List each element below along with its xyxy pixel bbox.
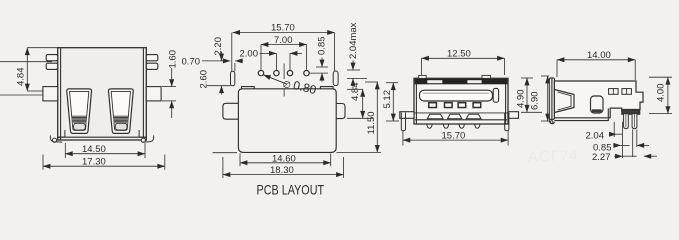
dim 2.60 (view2 left) <box>207 52 231 95</box>
dim 2.27 (view4 bottom) <box>614 155 657 157</box>
right slot <box>333 71 338 86</box>
dim 2.20 (view2 slot width) <box>235 61 243 71</box>
cap bump left <box>419 75 427 78</box>
leader for dia 0.80 <box>263 75 287 84</box>
left foot <box>58 130 65 137</box>
left side lead <box>43 87 58 101</box>
dim 15.70 (view3 bottom) <box>403 131 508 146</box>
leader line left top <box>0 61 52 63</box>
svg-text:6.90: 6.90 <box>530 92 541 111</box>
svg-text:4.84: 4.84 <box>350 83 361 102</box>
right cup bottom pocket <box>115 123 127 130</box>
left contact cup outer <box>67 89 92 133</box>
dim 0.85 (view4 bottom) <box>614 130 650 158</box>
dim 4.84 (view1 left) <box>27 48 57 91</box>
top bump right <box>320 87 333 89</box>
dim 4.84 (view2 right) <box>347 89 373 118</box>
left mount tab <box>400 112 414 119</box>
window 2 <box>448 114 462 119</box>
right contact cup outer <box>108 89 133 133</box>
svg-text:4.90: 4.90 <box>516 90 527 109</box>
svg-text:14.50: 14.50 <box>82 144 106 155</box>
center line <box>283 64 285 80</box>
svg-text:0.85: 0.85 <box>317 37 328 56</box>
dim 6.90 (left of view4) <box>541 76 549 121</box>
side cube <box>493 88 498 102</box>
bottom pin bump 3 <box>459 124 464 128</box>
bottom pin bump 1 <box>427 124 432 128</box>
top cap dark band <box>415 79 508 84</box>
shell inner wall left <box>60 48 62 140</box>
top right window 2 <box>622 89 632 95</box>
bottom pin bump 4 <box>475 124 480 128</box>
hole 4 <box>304 70 309 75</box>
svg-text:7.00: 7.00 <box>274 35 293 46</box>
leader line left bottom <box>0 94 44 96</box>
svg-text:4.84: 4.84 <box>16 68 27 87</box>
dim 1.60 (view1 right) <box>162 68 176 118</box>
svg-text:4.00: 4.00 <box>655 84 666 103</box>
left pin <box>401 113 405 131</box>
dim 5.12 (view2 right) <box>386 83 399 121</box>
hole 3 <box>287 70 292 75</box>
hole 1 <box>258 70 263 75</box>
left tab lower <box>46 63 58 69</box>
dim 15.70 (view2 top) <box>232 33 335 72</box>
right tab <box>336 104 345 119</box>
dim 17.30 (view1) <box>43 155 165 170</box>
dim 14.00 (view4 top) <box>557 60 635 80</box>
shell inner wall right <box>142 48 144 140</box>
body <box>554 81 643 118</box>
body inner walls <box>415 79 417 124</box>
window 1 <box>427 114 443 119</box>
dim 14.60 (view2 bottom) <box>240 154 331 167</box>
dim 18.30 (view2 bottom) <box>213 153 344 178</box>
contact hole 1 <box>429 103 437 108</box>
svg-text:PCB LAYOUT: PCB LAYOUT <box>257 182 325 197</box>
svg-text:2.04max: 2.04max <box>348 22 359 59</box>
left cup stripe band <box>72 116 87 124</box>
cap bump right <box>482 75 491 78</box>
hole 2 <box>274 70 279 75</box>
svg-text:1.60: 1.60 <box>168 50 179 69</box>
dim 2.00 (view2) <box>260 53 303 69</box>
svg-text:15.70: 15.70 <box>442 131 466 142</box>
contact hole 4 <box>473 103 481 108</box>
left tab <box>223 103 239 119</box>
left slot <box>231 71 235 85</box>
mid slot <box>591 96 604 113</box>
pin inner lines <box>625 114 627 127</box>
svg-text:14.60: 14.60 <box>272 154 296 165</box>
dim 14.50 (view1) <box>65 143 145 158</box>
svg-text:2.60: 2.60 <box>199 70 210 89</box>
svg-text:2.27: 2.27 <box>592 152 611 163</box>
window 3 <box>466 114 481 119</box>
svg-text:17.30: 17.30 <box>82 157 106 168</box>
shell inner wall bottom <box>58 136 146 138</box>
mid line <box>414 112 508 114</box>
dim 12.50 (view3 top) <box>422 58 505 75</box>
right tab lower <box>146 63 158 69</box>
mounting flange <box>549 78 554 120</box>
cap white slot right <box>467 80 481 83</box>
dim 7.00 (view2) <box>261 45 307 70</box>
svg-text:0.70: 0.70 <box>182 56 201 67</box>
right mount tab <box>508 112 519 119</box>
svg-text:ACΓ74: ACΓ74 <box>528 147 579 166</box>
svg-text:14.00: 14.00 <box>587 50 611 61</box>
contact hole 3 <box>458 103 466 108</box>
dim 0.85 (view2) <box>309 58 328 82</box>
dim 4.00 (view4 right) <box>649 77 672 113</box>
svg-text:15.70: 15.70 <box>271 23 295 34</box>
right pin <box>505 113 509 131</box>
left cup bottom pocket <box>74 123 86 130</box>
top bump left <box>242 87 255 89</box>
svg-text:11.50: 11.50 <box>366 111 377 134</box>
right contact cup inner <box>111 92 130 131</box>
right tab upper <box>146 55 158 61</box>
seam slot <box>420 90 493 101</box>
right cup stripe band <box>114 116 129 124</box>
svg-text:2.20: 2.20 <box>213 37 224 56</box>
right foot <box>139 130 146 137</box>
svg-text:2.04: 2.04 <box>586 130 605 141</box>
top right window 1 <box>609 89 619 95</box>
dim 4.90 (between view3 and view4) <box>521 78 542 112</box>
dim 11.50 (view2 right) <box>337 82 382 152</box>
svg-text:5.12: 5.12 <box>382 90 393 109</box>
bottom pin bump 2 <box>443 124 448 128</box>
svg-text:12.50: 12.50 <box>447 49 471 60</box>
left contact cup inner <box>70 92 89 131</box>
latch detail <box>554 90 574 113</box>
cap white slot left <box>427 80 442 83</box>
svg-text:2.00: 2.00 <box>240 48 259 59</box>
shell body <box>58 48 147 140</box>
contact hole 2 <box>445 103 453 108</box>
solder pin 1 <box>624 114 629 128</box>
left tab upper <box>46 55 58 61</box>
svg-text:18.30: 18.30 <box>270 165 294 176</box>
body <box>414 78 508 124</box>
right side lead <box>146 87 161 101</box>
dim 2.04max (view2) <box>347 61 367 89</box>
solder pin 2 <box>632 114 637 128</box>
dim 2.04 (view4 bottom) <box>611 122 622 158</box>
pcb outline <box>238 89 336 153</box>
